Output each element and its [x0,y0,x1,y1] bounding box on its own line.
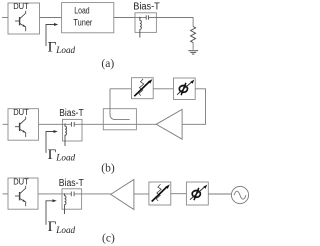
wire DUT to Bias-T (c) [38,193,62,195]
Bias-T block (a) [135,13,156,33]
gamma-load arrow (a) [46,23,58,46]
variable attenuator symbol (b) [134,79,152,96]
inductor L2 (b) [65,124,67,146]
wire into capacitor (a) [135,17,146,19]
wire Bias-T to coupler and through to amplifier (b) [82,123,156,125]
resistor R1 (a) [191,27,196,43]
wire Bias-T internal (c) [62,193,82,195]
ground (a) [188,51,198,54]
wire loop top-left (b) [110,88,132,90]
Bias-T block (c) [62,189,82,209]
amplifier A1 (b) [156,109,182,139]
capacitor C2 (b) [71,122,74,127]
wire amplifier to attenuator (c) [134,193,149,195]
capacitor C3 (c) [71,192,74,197]
svg-text:Bias-T: Bias-T [59,178,84,189]
svg-text:(b): (b) [101,163,115,175]
capacitor C1 (a) [146,15,148,19]
gamma-load arrow (c) [46,199,57,225]
variable attenuator block (c) [149,182,171,205]
coupled line and loop left riser (b) [110,89,130,120]
variable phase shifter symbol (b) [177,80,194,96]
wire attenuator to phase shifter (c) [171,193,187,195]
label Load Tuner (a) [73,5,93,28]
amplifier A2 (c) [111,180,134,210]
svg-text:Tuner: Tuner [73,17,93,28]
gamma-load arrow (b) [46,130,58,153]
variable phase shifter symbol (c) [190,185,207,201]
wire attenuator to phase shifter (b) [153,88,173,90]
junction dot L2 (b) [64,124,66,126]
inductor L3 (c) [65,194,67,214]
variable phase shifter block (b) [174,78,196,100]
wire resistor to ground (a) [192,43,194,50]
wire Load Tuner to Bias-T (a) [114,17,135,19]
wire Bias-T to amplifier (c) [82,193,111,195]
transistor Q2 (b) [15,117,26,138]
wire input stub (a) [2,17,8,19]
svg-text:(c): (c) [102,232,115,244]
junction dot L1 (a) [139,17,141,19]
svg-text:Bias-T: Bias-T [133,2,160,13]
svg-text:(a): (a) [101,58,114,70]
svg-text:DUT: DUT [13,108,29,117]
Load Tuner block (a) [62,3,114,33]
inductor L1 (a) [140,18,142,38]
wire Bias-T internal to cap (b) [63,123,83,125]
DUT block (c) [8,178,38,209]
variable attenuator symbol (c) [152,184,170,201]
transistor Q3 (c) [15,186,26,207]
junction dot L3 (c) [64,193,66,195]
Bias-T block (b) [63,119,83,141]
wire DUT to Bias-T (b) [39,123,63,125]
wire phase shifter to loop right riser (b) [182,89,205,125]
variable attenuator block (b) [132,78,154,99]
svg-text:DUT: DUT [13,2,29,11]
variable phase shifter block (c) [186,182,208,205]
wire Bias-T to resistor corner (a) [148,18,193,27]
wire phase shifter to source (c) [208,193,231,195]
transistor Q1 (a) [15,11,26,32]
wire input stub (c) [3,193,9,195]
svg-text:DUT: DUT [13,177,29,186]
svg-text:Load: Load [74,5,89,16]
wire DUT to Load Tuner (a) [40,17,62,19]
directional coupler (b) [103,109,136,130]
DUT block (b) [8,109,39,141]
DUT block (a) [8,3,40,34]
wire input stub (b) [3,123,9,125]
RF source V1 (c) [231,186,248,203]
svg-text:Bias-T: Bias-T [59,108,83,119]
